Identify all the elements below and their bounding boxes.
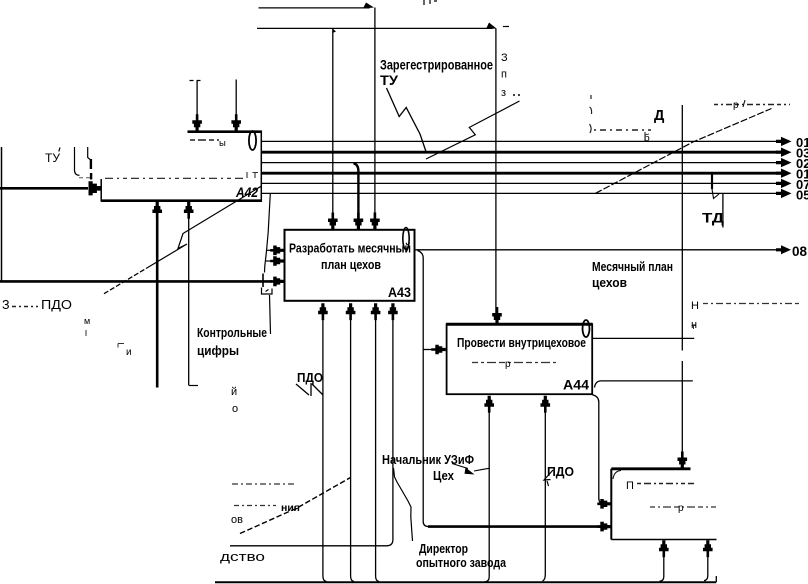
svg-text:Начальник УЗиФ: Начальник УЗиФ [382,453,474,467]
bottom box left edge [610,469,612,540]
box A42 left edge [100,179,102,202]
leader from УЗиФ with small arrow [452,464,489,472]
faded dotted label line b [234,505,276,507]
arrowheads into A43 top [328,213,338,230]
svg-text:А42: А42 [235,185,258,200]
dots after з [513,94,520,96]
svg-text:ПДО: ПДО [41,298,72,312]
A44 faded second line [472,362,556,364]
svg-text:о: о [232,403,238,415]
tick crossing thick line [262,274,264,288]
wire vertical from top line 1 down to A43 [374,8,376,220]
svg-text:ов: ов [231,514,243,526]
dotted line to Д [594,129,651,131]
faded text line inside A42 [190,139,219,141]
bottom box top edge [611,467,690,470]
thin vertical from A42 bottom down [188,210,190,386]
A43 bottom feed 1 [323,313,327,582]
band line 2 thick [262,151,783,154]
band line 5 [262,182,783,184]
A43 bottom feed 4 from y546 line [230,313,393,546]
arrow into A42 top from x236 [235,80,237,122]
thick vertical from A42 bottom down [156,210,159,388]
faded stub left of A42 [79,177,90,179]
box A42 top edge [188,130,263,133]
svg-text:05: 05 [796,188,808,203]
bracket line 1 [75,147,80,175]
svg-text:ния: ния [281,502,300,514]
O8 line from A43 right [415,249,781,251]
vertical leader for ТД [722,193,724,227]
svg-text:ТД: ТД [702,210,724,226]
diagonal callout Заявки ПДО to A42 [104,269,146,294]
svg-text:цифры: цифры [197,343,239,358]
bottom box bottom feed 1 [660,548,664,581]
svg-text:опытного завода: опытного завода [416,556,507,570]
svg-text:ы: ы [219,138,226,149]
svg-text:р: р [733,100,739,111]
svg-text:п: п [501,69,507,81]
left border vertical [1,147,3,281]
tick from band4 [711,174,713,189]
stub arrow into A43 left mid [266,260,275,262]
wire top control line 1 [259,7,370,9]
svg-text:Контрольные: Контрольные [197,325,267,340]
svg-text:р: р [505,359,511,370]
bottom box faded text line 2 [650,506,716,508]
line from A44 corner down to bottom box [592,395,604,504]
svg-text:план цехов: план цехов [321,257,381,272]
squiggle under ПДО [296,383,323,396]
faded dotted label line a [232,483,295,485]
svg-text:ТУ: ТУ [380,72,398,88]
band line 1 [262,140,783,142]
svg-text:З: З [2,298,10,312]
svg-text:Д: Д [654,108,665,124]
arrow corner onto vertical I1 [363,3,374,9]
stub arrow into A43 left upper [266,249,275,251]
svg-text:А44: А44 [563,377,589,393]
wavy leader to Директор [394,468,413,541]
arrow into A42 top from x197 [196,81,198,121]
svg-text:ПДО: ПДО [297,371,323,385]
bottom long line [215,581,716,583]
vertical line x682 upper part [681,105,683,351]
brace marks [590,95,592,133]
svg-text:и: и [126,347,132,358]
diagonal callout bottom left [240,478,351,534]
apostrophe [59,148,60,152]
loop curl at A42 top right [249,131,256,150]
wire vertical x332.8 from line2 down to A43 [332,29,334,220]
A43 bottom feed 2 [351,313,354,582]
squiggle at ПДО right [544,470,553,486]
svg-text:А43: А43 [388,284,411,300]
junction tick at line2 [333,29,337,34]
wire top control line 2 [257,27,493,29]
squiggle from ТУ label down to band [387,88,427,153]
hook check [712,189,719,199]
A44 bottom feed 2 [543,404,546,581]
wire vertical x496 down to A44 top [495,29,497,315]
foot tick [189,385,198,387]
faded corner mark [247,172,258,178]
band line 3 [262,162,783,164]
box A42 right edge [260,131,262,202]
stub arrow into A44 left [423,349,436,351]
tiny mark end [692,326,696,330]
corner curl [613,471,621,480]
tick near arrow [90,159,93,180]
arrow corner onto vertical I2 [486,23,497,30]
svg-text:Провести внутрицеховое: Провести внутрицеховое [457,335,586,350]
tick right of corner [503,26,509,28]
A44 right output line 2 with curve [595,381,693,388]
A43 bottom feed 3 [376,313,379,582]
vertical line x682 lower part with arrow into bottom box [681,361,683,459]
zigzag diagonal to Зпз [426,101,520,159]
A44 right output line 1 [593,337,694,339]
svg-text:м: м [84,316,90,326]
band line 4 thick [262,172,783,175]
A44 top edge thick [446,323,593,326]
A44 bottom feed 1 [485,404,490,582]
box A44 [447,324,593,394]
svg-text:З: З [501,52,508,64]
top right dotted label [714,104,790,106]
thick input line into A43 left [0,280,272,283]
svg-text:й: й [231,386,237,398]
thick input arrow into A42 left [0,187,88,190]
svg-text:н: н [691,319,697,331]
cut label marks at very top [424,0,437,5]
svg-text:Месячный план: Месячный план [592,260,673,274]
band line 6 [262,192,783,194]
loop curl at A43 top right [403,228,409,250]
arrowhead into A44 top [492,307,502,324]
bottom box bottom edge [611,539,716,541]
loop curl at A44 top right [583,320,590,337]
vertical callout line from band6 down (Контрольные) [265,193,271,334]
diagonal right side [596,109,772,194]
box A42 bottom edge [101,199,262,202]
right end tick [715,576,717,582]
thick line into bottom box left [428,525,601,528]
svg-text:р: р [678,503,684,514]
svg-text:Н: Н [691,300,699,312]
box A43 [285,230,415,301]
svg-text:Цех: Цех [433,469,454,483]
bottom box bottom feed 2 [704,548,708,581]
hook below line [262,288,273,295]
bracket line 2 [88,147,91,160]
svg-text:цехов: цехов [592,276,627,290]
svg-text:ТУ: ТУ [45,153,61,165]
svg-text:дство: дство [220,550,265,564]
dashed T bar [190,80,204,82]
svg-text:Зарегестрированное: Зарегестрированное [380,57,493,73]
svg-text:з: з [501,87,506,99]
branch curve down from O8 [418,251,430,527]
box A42 faded top border dashed [105,177,245,179]
svg-text:Разработать месячный: Разработать месячный [289,241,411,256]
svg-text:Директор: Директор [419,542,468,556]
svg-text:П: П [626,480,634,492]
thick vertical control from band to A43 [354,163,359,219]
svg-text:08: 08 [792,244,808,259]
